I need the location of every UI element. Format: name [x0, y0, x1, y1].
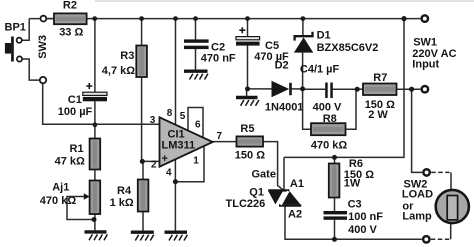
svg-text:SW3: SW3 [37, 35, 49, 59]
resistor R6 [329, 164, 340, 198]
node C1 bottom [93, 122, 98, 127]
resistor R2 [54, 13, 87, 24]
wire R4 top [142, 161, 144, 179]
lamp SW2 load [436, 190, 469, 223]
wire lamp top link [450, 172, 452, 189]
wire R5 to gate [263, 142, 284, 191]
resistor R7 [363, 84, 397, 96]
wire C4 right to node [333, 88, 358, 90]
ground under C2 [184, 71, 208, 79]
svg-text:1 kΩ: 1 kΩ [110, 197, 134, 209]
capacitor C2 [184, 39, 209, 49]
node C5 top [245, 16, 250, 21]
svg-text:2: 2 [151, 159, 157, 170]
svg-text:470 kΩ: 470 kΩ [311, 139, 348, 151]
svg-text:TLC226: TLC226 [226, 198, 266, 210]
svg-text:LM311: LM311 [162, 140, 196, 152]
wire BP1 bottom to circle [22, 59, 40, 80]
wire node to R7 [357, 88, 363, 90]
wire R4 to ground [142, 212, 144, 231]
svg-text:Lamp: Lamp [402, 211, 432, 223]
node R7 SW1 [409, 87, 414, 92]
svg-text:1N4001: 1N4001 [265, 102, 304, 114]
ground under Aj1 [85, 232, 108, 240]
node R6 top [332, 155, 337, 160]
wire C2 to ground [195, 49, 197, 70]
terminal SW1 bottom [422, 86, 428, 92]
resistor R8 [311, 123, 346, 135]
wire D1 anode down [302, 53, 304, 89]
node C3 bottom [332, 237, 337, 242]
svg-text:R5: R5 [240, 123, 254, 135]
svg-text:+: + [162, 153, 168, 165]
connector circle mid left [40, 77, 46, 83]
node C4 R7 [355, 87, 360, 92]
svg-text:BP1: BP1 [5, 22, 26, 34]
svg-text:3: 3 [150, 115, 156, 126]
node Aj1 wiper [92, 217, 97, 222]
svg-text:R1: R1 [70, 143, 84, 155]
terminal SW2 bottom [423, 236, 429, 242]
wire C5 node to ground [246, 89, 248, 96]
node D1 D2 C4 [300, 86, 305, 91]
node pin2 [140, 159, 145, 164]
ground under R4 [131, 232, 154, 240]
scan artifact top edge [95, 0, 474, 2]
potentiometer Aj1 [84, 181, 100, 215]
terminal SW1 top [422, 15, 428, 21]
wire SW2 feed [412, 89, 423, 172]
svg-text:R8: R8 [323, 113, 337, 125]
wire pin 8 [175, 19, 177, 126]
node R2 right [92, 16, 97, 21]
svg-text:R4: R4 [117, 185, 132, 197]
svg-text:Q1: Q1 [249, 187, 264, 199]
svg-text:47 kΩ: 47 kΩ [55, 155, 85, 167]
svg-text:470 nF: 470 nF [201, 53, 236, 65]
svg-text:A2: A2 [288, 209, 302, 221]
wire A1 riser [283, 157, 285, 190]
wire top rail [29, 18, 404, 20]
wire D1 node to R8 left [303, 89, 311, 129]
svg-text:1: 1 [193, 155, 199, 166]
node SW1 top [401, 16, 406, 21]
svg-text:4,7 kΩ: 4,7 kΩ [102, 65, 135, 77]
svg-text:100 µF: 100 µF [58, 106, 93, 118]
wire R6 to C3 [334, 198, 336, 212]
svg-text:D1: D1 [317, 30, 331, 42]
wire pins 5-6 strap [188, 108, 203, 138]
node C2 top [193, 16, 198, 21]
svg-text:BZX85C6V2: BZX85C6V2 [317, 42, 379, 54]
resistor R3 [136, 46, 147, 78]
wire R8 right up [346, 89, 357, 129]
wire D1 top [302, 19, 304, 35]
wire pin 4 down to ground [174, 159, 176, 230]
svg-text:Input: Input [412, 59, 439, 71]
wire C2 top [195, 19, 197, 40]
wire C1 column [94, 19, 96, 92]
capacitor C1 [83, 83, 107, 101]
svg-text:LOAD: LOAD [402, 188, 433, 200]
svg-text:CI1: CI1 [168, 128, 185, 140]
ground under C5 node [236, 98, 259, 106]
svg-text:100 nF: 100 nF [348, 211, 383, 223]
node R3 top [139, 16, 144, 21]
svg-text:Aj1: Aj1 [52, 182, 69, 194]
wire pin 1 to pin 4 [175, 147, 204, 182]
svg-text:33 Ω: 33 Ω [59, 27, 83, 39]
wire D2 cathode to D1 node [292, 88, 303, 90]
wire R1 to Aj1 [94, 170, 96, 181]
resistor R1 [90, 139, 101, 170]
wire Aj1 to ground [94, 214, 96, 230]
svg-text:7: 7 [217, 131, 223, 142]
wire C3 to bottom rail [334, 220, 336, 240]
svg-text:150 Ω: 150 Ω [235, 149, 265, 161]
wire lamp bottom link [450, 224, 452, 240]
wire C5 node to D2 [248, 88, 272, 90]
capacitor C5 [236, 27, 260, 45]
resistor R4 [138, 180, 149, 212]
node pin4-pin1 [173, 179, 178, 184]
op-amp U1 LM311 [160, 117, 213, 166]
wire Aj1 wiper return [67, 197, 94, 220]
svg-text:C4/1 µF: C4/1 µF [300, 64, 340, 76]
svg-text:D2: D2 [275, 59, 289, 71]
svg-text:C3: C3 [348, 199, 362, 211]
svg-text:C1: C1 [68, 94, 82, 106]
wire R6 stub [334, 157, 336, 163]
wire R3 to pin2 node [142, 77, 160, 161]
capacitor C4 [325, 83, 333, 99]
wire R7 right [397, 88, 421, 90]
terminal SW2 top [423, 169, 429, 175]
svg-text:1W: 1W [344, 178, 361, 190]
capacitor C3 [324, 211, 348, 220]
wire C5 top [247, 19, 249, 37]
svg-text:A1: A1 [290, 178, 304, 190]
wire R3 column top [141, 19, 143, 46]
wire C4 left [303, 88, 326, 90]
wire A2 riser and bottom rail [285, 206, 422, 240]
diode D2 [272, 81, 292, 98]
svg-text:R3: R3 [120, 50, 134, 62]
zener D1 [294, 32, 313, 53]
wire dash-dot lamp bottom to SW2 bottom [431, 238, 451, 240]
svg-text:2 W: 2 W [368, 109, 388, 121]
svg-text:R7: R7 [373, 72, 387, 84]
node C5 D2 [245, 86, 250, 91]
svg-text:8: 8 [167, 108, 173, 119]
triac Q1 [268, 190, 301, 205]
pushbutton BP1 [5, 37, 22, 62]
svg-text:6: 6 [195, 119, 201, 130]
wire C5 bottom [247, 45, 249, 89]
wire circle to R2 [47, 18, 54, 20]
wire right rail down [284, 19, 404, 158]
wire BP1 top to rail [22, 19, 29, 41]
wire circle down to node wire [43, 84, 160, 124]
connector circle at R2 left [41, 16, 47, 22]
node pin8 top [173, 16, 178, 21]
node D1 top [301, 16, 306, 21]
svg-text:400 V: 400 V [348, 224, 377, 236]
svg-text:470 kΩ: 470 kΩ [40, 195, 77, 207]
svg-text:5: 5 [180, 111, 186, 122]
wire SW1 top link [404, 18, 420, 20]
svg-text:SW1: SW1 [413, 36, 437, 48]
wire pin 7 to R5 [213, 141, 237, 143]
svg-text:Gate: Gate [252, 169, 276, 181]
svg-text:400 V: 400 V [313, 101, 342, 113]
resistor R5 [237, 136, 264, 146]
svg-text:R2: R2 [63, 0, 77, 12]
ground under pin 4 [165, 232, 188, 240]
svg-text:4: 4 [166, 168, 172, 179]
wire dash-dot SW2 top to lamp [431, 171, 451, 173]
